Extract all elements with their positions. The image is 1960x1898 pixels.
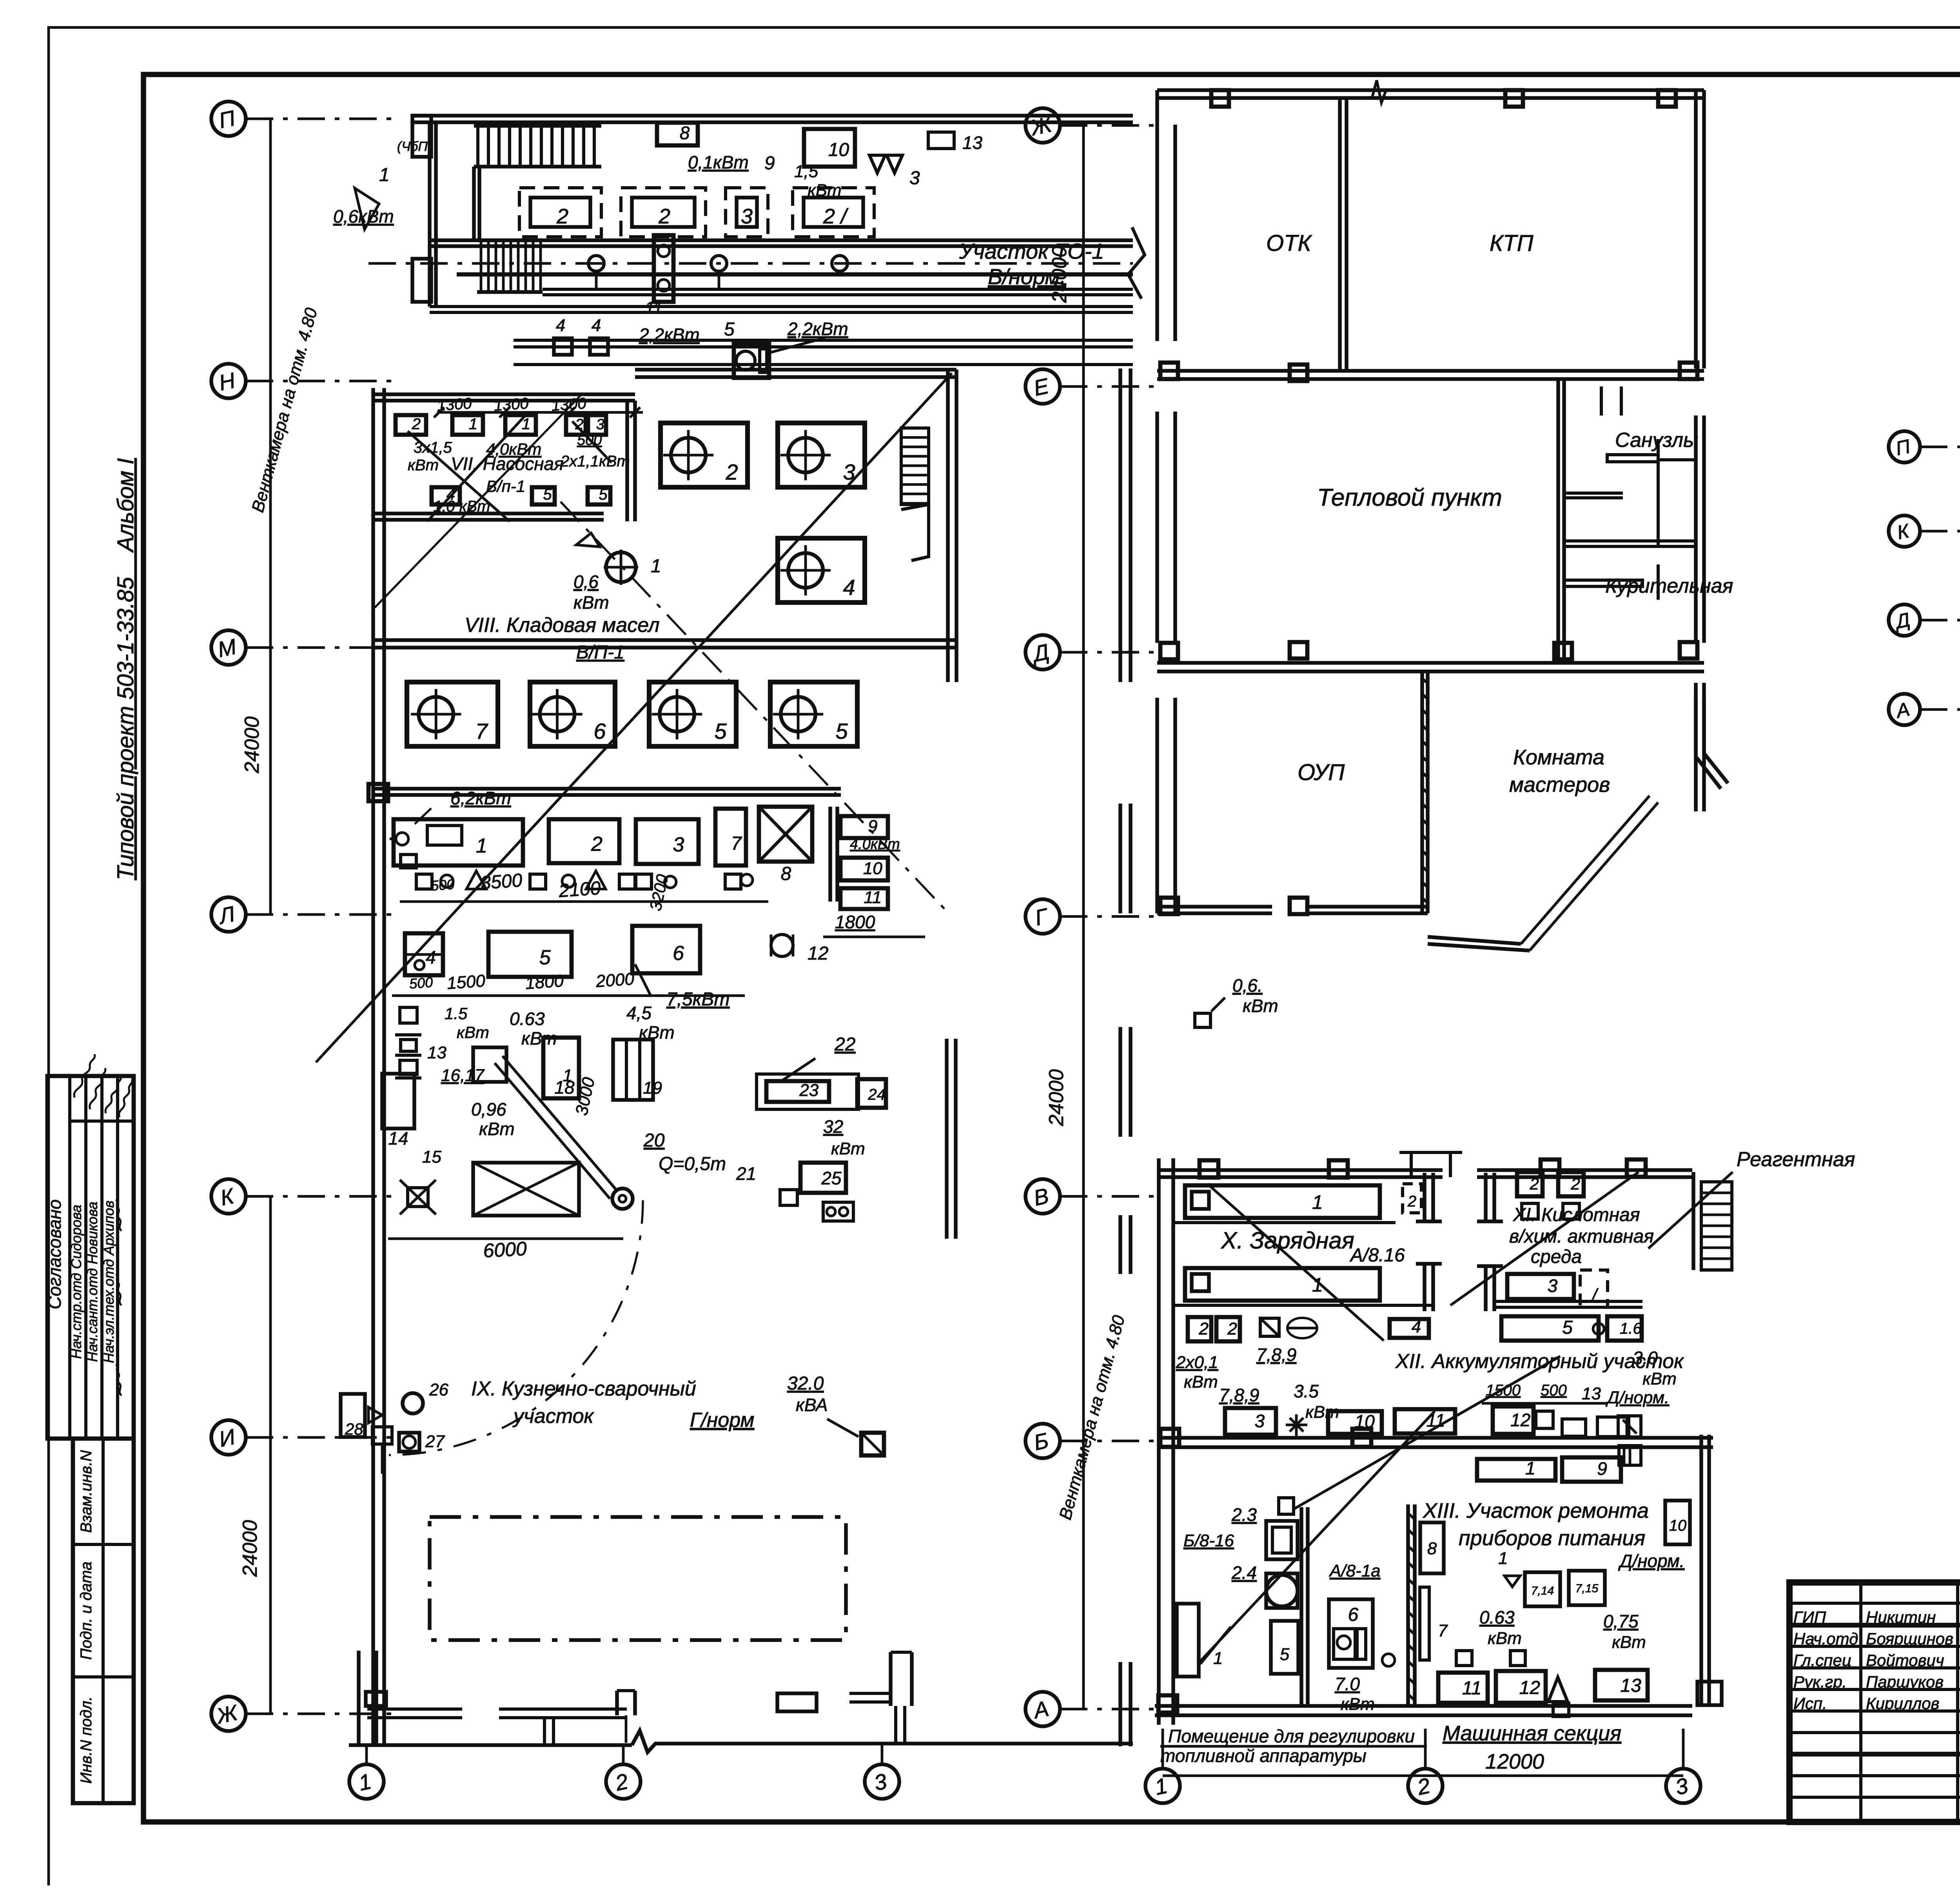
svg-text:13: 13 bbox=[962, 132, 983, 153]
svg-text:1: 1 bbox=[1498, 1549, 1508, 1568]
svg-text:Кириллов: Кириллов bbox=[1866, 1694, 1939, 1713]
svg-text:11: 11 bbox=[1462, 1678, 1482, 1698]
svg-text:9: 9 bbox=[868, 817, 877, 836]
svg-text:8: 8 bbox=[781, 864, 791, 884]
svg-text:32.0: 32.0 bbox=[787, 1373, 824, 1394]
svg-text:Нач.стр.отд Сидорова: Нач.стр.отд Сидорова bbox=[68, 1205, 84, 1359]
svg-text:3: 3 bbox=[1255, 1411, 1265, 1431]
svg-text:24: 24 bbox=[867, 1086, 886, 1103]
svg-text:24000: 24000 bbox=[241, 717, 263, 774]
svg-text:1300: 1300 bbox=[551, 395, 587, 414]
svg-text:13: 13 bbox=[1620, 1675, 1641, 1696]
svg-text:кВт: кВт bbox=[479, 1119, 515, 1139]
svg-text:Согласовано: Согласовано bbox=[44, 1199, 65, 1310]
svg-text:15: 15 bbox=[422, 1147, 441, 1167]
svg-text:2: 2 bbox=[412, 416, 421, 433]
svg-text:2 /: 2 / bbox=[823, 205, 849, 228]
svg-text:11: 11 bbox=[864, 888, 882, 907]
svg-text:6,2кВт: 6,2кВт bbox=[450, 788, 511, 808]
svg-text:3.0: 3.0 bbox=[1633, 1348, 1658, 1368]
svg-text:10: 10 bbox=[1669, 1517, 1687, 1534]
svg-text:7,5кВт: 7,5кВт bbox=[666, 989, 730, 1010]
svg-text:500: 500 bbox=[409, 974, 434, 992]
svg-text:2: 2 bbox=[1199, 1319, 1209, 1339]
svg-text:Х. Зарядная: Х. Зарядная bbox=[1220, 1227, 1354, 1254]
svg-text:4: 4 bbox=[1412, 1317, 1421, 1337]
svg-text:Помещение для регулировки: Помещение для регулировки bbox=[1168, 1726, 1415, 1746]
svg-text:Войтович: Войтович bbox=[1866, 1651, 1944, 1669]
svg-text:11: 11 bbox=[645, 298, 663, 318]
svg-text:кВА: кВА bbox=[796, 1395, 828, 1415]
svg-text:VIII. Кладовая масел: VIII. Кладовая масел bbox=[465, 614, 660, 637]
svg-text:(ЧбП.: (ЧбП. bbox=[397, 139, 431, 154]
svg-text:5: 5 bbox=[599, 486, 608, 503]
svg-text:Нач.эл.тех.отд Архипов: Нач.эл.тех.отд Архипов bbox=[101, 1201, 117, 1363]
svg-text:кВт: кВт bbox=[408, 457, 439, 474]
svg-text:Участок ТО-1: Участок ТО-1 bbox=[959, 239, 1104, 263]
svg-text:12: 12 bbox=[1519, 1677, 1540, 1698]
svg-text:3: 3 bbox=[741, 205, 753, 228]
svg-text:Курительная: Курительная bbox=[1605, 575, 1733, 597]
svg-text:кВт: кВт bbox=[573, 592, 609, 613]
svg-text:2: 2 bbox=[658, 205, 670, 228]
svg-text:2.3: 2.3 bbox=[1231, 1504, 1257, 1525]
svg-text:Q=0,5т: Q=0,5т bbox=[659, 1154, 726, 1174]
svg-text:13: 13 bbox=[1582, 1384, 1601, 1403]
svg-text:4,5: 4,5 bbox=[626, 1003, 652, 1023]
svg-text:0,96: 0,96 bbox=[471, 1099, 506, 1120]
svg-text:23: 23 bbox=[799, 1081, 818, 1100]
svg-text:приборов питания: приборов питания bbox=[1459, 1526, 1645, 1550]
svg-text:27: 27 bbox=[425, 1432, 445, 1451]
svg-text:3.5: 3.5 bbox=[1294, 1381, 1319, 1401]
svg-text:0.63: 0.63 bbox=[510, 1009, 545, 1029]
svg-text:5: 5 bbox=[724, 319, 735, 340]
svg-text:Нач.сант.отд Новикова: Нач.сант.отд Новикова bbox=[84, 1201, 100, 1362]
svg-text:6: 6 bbox=[593, 719, 606, 743]
svg-text:А/8.16: А/8.16 bbox=[1349, 1245, 1405, 1266]
svg-text:Реагентная: Реагентная bbox=[1737, 1148, 1855, 1171]
svg-text:12: 12 bbox=[1510, 1410, 1530, 1430]
svg-text:22: 22 bbox=[834, 1034, 855, 1055]
svg-text:1: 1 bbox=[379, 165, 390, 185]
svg-text:8: 8 bbox=[1427, 1539, 1437, 1558]
svg-text:кВт: кВт bbox=[1184, 1372, 1218, 1392]
svg-text:2: 2 bbox=[1571, 1175, 1580, 1193]
svg-text:Санузлы: Санузлы bbox=[1615, 429, 1698, 452]
svg-text:Д/норм.: Д/норм. bbox=[1605, 1388, 1669, 1407]
svg-text:В/норм.: В/норм. bbox=[988, 264, 1066, 289]
svg-text:9: 9 bbox=[1597, 1459, 1607, 1479]
svg-text:3: 3 bbox=[673, 833, 684, 856]
svg-text:24000: 24000 bbox=[239, 1520, 261, 1577]
svg-text:1: 1 bbox=[469, 416, 477, 433]
svg-text:26: 26 bbox=[429, 1380, 448, 1399]
svg-text:1.6: 1.6 bbox=[1620, 1320, 1642, 1337]
svg-text:1300: 1300 bbox=[436, 395, 472, 414]
svg-text:5: 5 bbox=[835, 719, 848, 743]
svg-text:2: 2 bbox=[1227, 1319, 1237, 1339]
svg-text:Тепловой пункт: Тепловой пункт bbox=[1317, 484, 1502, 511]
svg-text:2: 2 bbox=[591, 833, 603, 856]
svg-text:Комната: Комната bbox=[1513, 746, 1604, 769]
svg-text:5: 5 bbox=[543, 486, 552, 503]
svg-text:20: 20 bbox=[643, 1130, 665, 1151]
svg-text:0,6.: 0,6. bbox=[1232, 975, 1263, 996]
svg-text:Рук.гр.: Рук.гр. bbox=[1793, 1673, 1847, 1691]
svg-text:кВт: кВт bbox=[457, 1023, 489, 1042]
svg-text:4.0кВт: 4.0кВт bbox=[850, 836, 900, 853]
svg-text:участок: участок bbox=[512, 1405, 594, 1428]
svg-text:7,8,9: 7,8,9 bbox=[1256, 1345, 1296, 1365]
svg-text:топливной аппаратуры: топливной аппаратуры bbox=[1160, 1746, 1367, 1766]
svg-text:Никитин: Никитин bbox=[1866, 1608, 1936, 1626]
svg-text:0,75: 0,75 bbox=[1603, 1611, 1639, 1631]
svg-text:Типовой проект 503-1-33.85: Типовой проект 503-1-33.85 Альбом I bbox=[113, 458, 138, 880]
svg-text:6000: 6000 bbox=[483, 1238, 527, 1262]
svg-text:Исп.: Исп. bbox=[1793, 1694, 1827, 1713]
svg-text:1: 1 bbox=[1525, 1458, 1535, 1479]
svg-text:9: 9 bbox=[764, 153, 775, 174]
svg-text:1: 1 bbox=[651, 556, 661, 577]
svg-text:кВт: кВт bbox=[1488, 1629, 1522, 1648]
svg-text:2х1,1кВт: 2х1,1кВт bbox=[560, 453, 630, 470]
svg-text:Г/норм: Г/норм bbox=[690, 1409, 754, 1432]
svg-text:2: 2 bbox=[725, 459, 738, 484]
svg-text:А/8-1а: А/8-1а bbox=[1328, 1561, 1381, 1580]
svg-text:0.63: 0.63 bbox=[1479, 1607, 1515, 1628]
svg-text:Боярщинов: Боярщинов bbox=[1866, 1629, 1953, 1648]
svg-text:кВт: кВт bbox=[831, 1139, 865, 1158]
svg-text:7,14: 7,14 bbox=[1531, 1584, 1554, 1597]
svg-text:4: 4 bbox=[556, 316, 565, 335]
svg-text:IX. Кузнечно-сварочный: IX. Кузнечно-сварочный bbox=[471, 1377, 696, 1400]
svg-text:5: 5 bbox=[1562, 1317, 1573, 1338]
svg-text:2,2кВт: 2,2кВт bbox=[639, 325, 700, 345]
svg-text:1800: 1800 bbox=[524, 971, 564, 993]
svg-text:кВт: кВт bbox=[1243, 996, 1278, 1016]
svg-text:6: 6 bbox=[673, 942, 684, 965]
svg-text:Инв.N подл.: Инв.N подл. bbox=[78, 1697, 95, 1784]
svg-text:0,1кВт: 0,1кВт bbox=[688, 152, 749, 172]
svg-text:14: 14 bbox=[388, 1128, 408, 1149]
svg-text:Подп. и дата: Подп. и дата bbox=[78, 1562, 95, 1660]
svg-text:КТП: КТП bbox=[1490, 230, 1534, 256]
svg-text:Взам.инв.N: Взам.инв.N bbox=[78, 1450, 95, 1533]
svg-text:18: 18 bbox=[554, 1077, 575, 1098]
svg-text:1800: 1800 bbox=[835, 912, 875, 932]
svg-text:Машинная секция: Машинная секция bbox=[1443, 1722, 1621, 1745]
svg-text:0,6: 0,6 bbox=[573, 572, 599, 592]
svg-text:1: 1 bbox=[1213, 1649, 1223, 1668]
svg-text:2.4: 2.4 bbox=[1231, 1562, 1257, 1583]
svg-text:2: 2 bbox=[1407, 1193, 1416, 1210]
svg-text:2: 2 bbox=[556, 205, 568, 228]
svg-text:в/хим. активная: в/хим. активная bbox=[1509, 1226, 1654, 1247]
svg-text:XIII. Участок ремонта: XIII. Участок ремонта bbox=[1422, 1499, 1649, 1522]
svg-text:5: 5 bbox=[539, 946, 551, 969]
svg-text:7: 7 bbox=[475, 719, 488, 743]
svg-text:3: 3 bbox=[596, 416, 604, 433]
svg-text:Д/норм.: Д/норм. bbox=[1618, 1551, 1684, 1571]
svg-text:19: 19 bbox=[643, 1078, 662, 1098]
svg-text:2,2кВт: 2,2кВт bbox=[787, 319, 848, 339]
svg-text:5: 5 bbox=[714, 719, 727, 743]
svg-text:3: 3 bbox=[1548, 1276, 1558, 1296]
svg-text:25: 25 bbox=[821, 1168, 842, 1188]
svg-text:кВт: кВт bbox=[1612, 1633, 1646, 1652]
svg-text:500: 500 bbox=[1541, 1382, 1567, 1399]
svg-text:7,8,9: 7,8,9 bbox=[1219, 1385, 1259, 1405]
svg-text:10: 10 bbox=[863, 859, 882, 878]
svg-text:32: 32 bbox=[823, 1116, 843, 1137]
svg-text:4: 4 bbox=[843, 575, 855, 599]
svg-text:6: 6 bbox=[1348, 1604, 1359, 1625]
svg-text:13: 13 bbox=[427, 1043, 446, 1062]
svg-text:мастеров: мастеров bbox=[1509, 773, 1610, 797]
svg-text:24000: 24000 bbox=[1045, 1069, 1068, 1127]
svg-text:4: 4 bbox=[592, 316, 601, 335]
svg-text:Нач.отд: Нач.отд bbox=[1793, 1629, 1858, 1648]
svg-text:21: 21 bbox=[736, 1163, 756, 1184]
svg-text:1: 1 bbox=[476, 835, 487, 857]
svg-text:ОУП: ОУП bbox=[1298, 760, 1345, 785]
svg-text:кВт: кВт bbox=[1642, 1369, 1677, 1388]
svg-text:3: 3 bbox=[909, 168, 920, 189]
svg-text:5: 5 bbox=[1280, 1645, 1290, 1664]
svg-text:Б/8-16: Б/8-16 bbox=[1183, 1531, 1234, 1550]
svg-text:2х0,1: 2х0,1 bbox=[1176, 1353, 1218, 1372]
svg-text:кВт: кВт bbox=[808, 181, 842, 200]
svg-text:ОТК: ОТК bbox=[1266, 230, 1312, 256]
svg-text:1500: 1500 bbox=[446, 971, 486, 993]
svg-text:10: 10 bbox=[828, 140, 849, 160]
svg-text:Гл.спец: Гл.спец bbox=[1793, 1651, 1851, 1669]
svg-text:7: 7 bbox=[731, 833, 742, 854]
svg-text:среда: среда bbox=[1531, 1247, 1582, 1267]
svg-text:12: 12 bbox=[808, 943, 828, 964]
svg-text:1: 1 bbox=[1312, 1191, 1323, 1213]
svg-text:8: 8 bbox=[680, 123, 690, 143]
svg-text:7,15: 7,15 bbox=[1575, 1582, 1599, 1595]
svg-text:7: 7 bbox=[1438, 1621, 1448, 1640]
svg-text:ГИП: ГИП bbox=[1793, 1608, 1826, 1626]
svg-text:2: 2 bbox=[1530, 1175, 1539, 1193]
svg-text:7.0: 7.0 bbox=[1335, 1674, 1360, 1694]
svg-text:4: 4 bbox=[426, 947, 436, 967]
svg-text:Паршуков: Паршуков bbox=[1866, 1673, 1944, 1691]
svg-text:2000: 2000 bbox=[595, 969, 635, 991]
svg-text:1300: 1300 bbox=[493, 395, 529, 414]
svg-text:1.5: 1.5 bbox=[445, 1004, 468, 1023]
svg-text:В/П-1: В/П-1 bbox=[576, 642, 624, 663]
svg-text:12000: 12000 bbox=[1485, 1750, 1544, 1773]
